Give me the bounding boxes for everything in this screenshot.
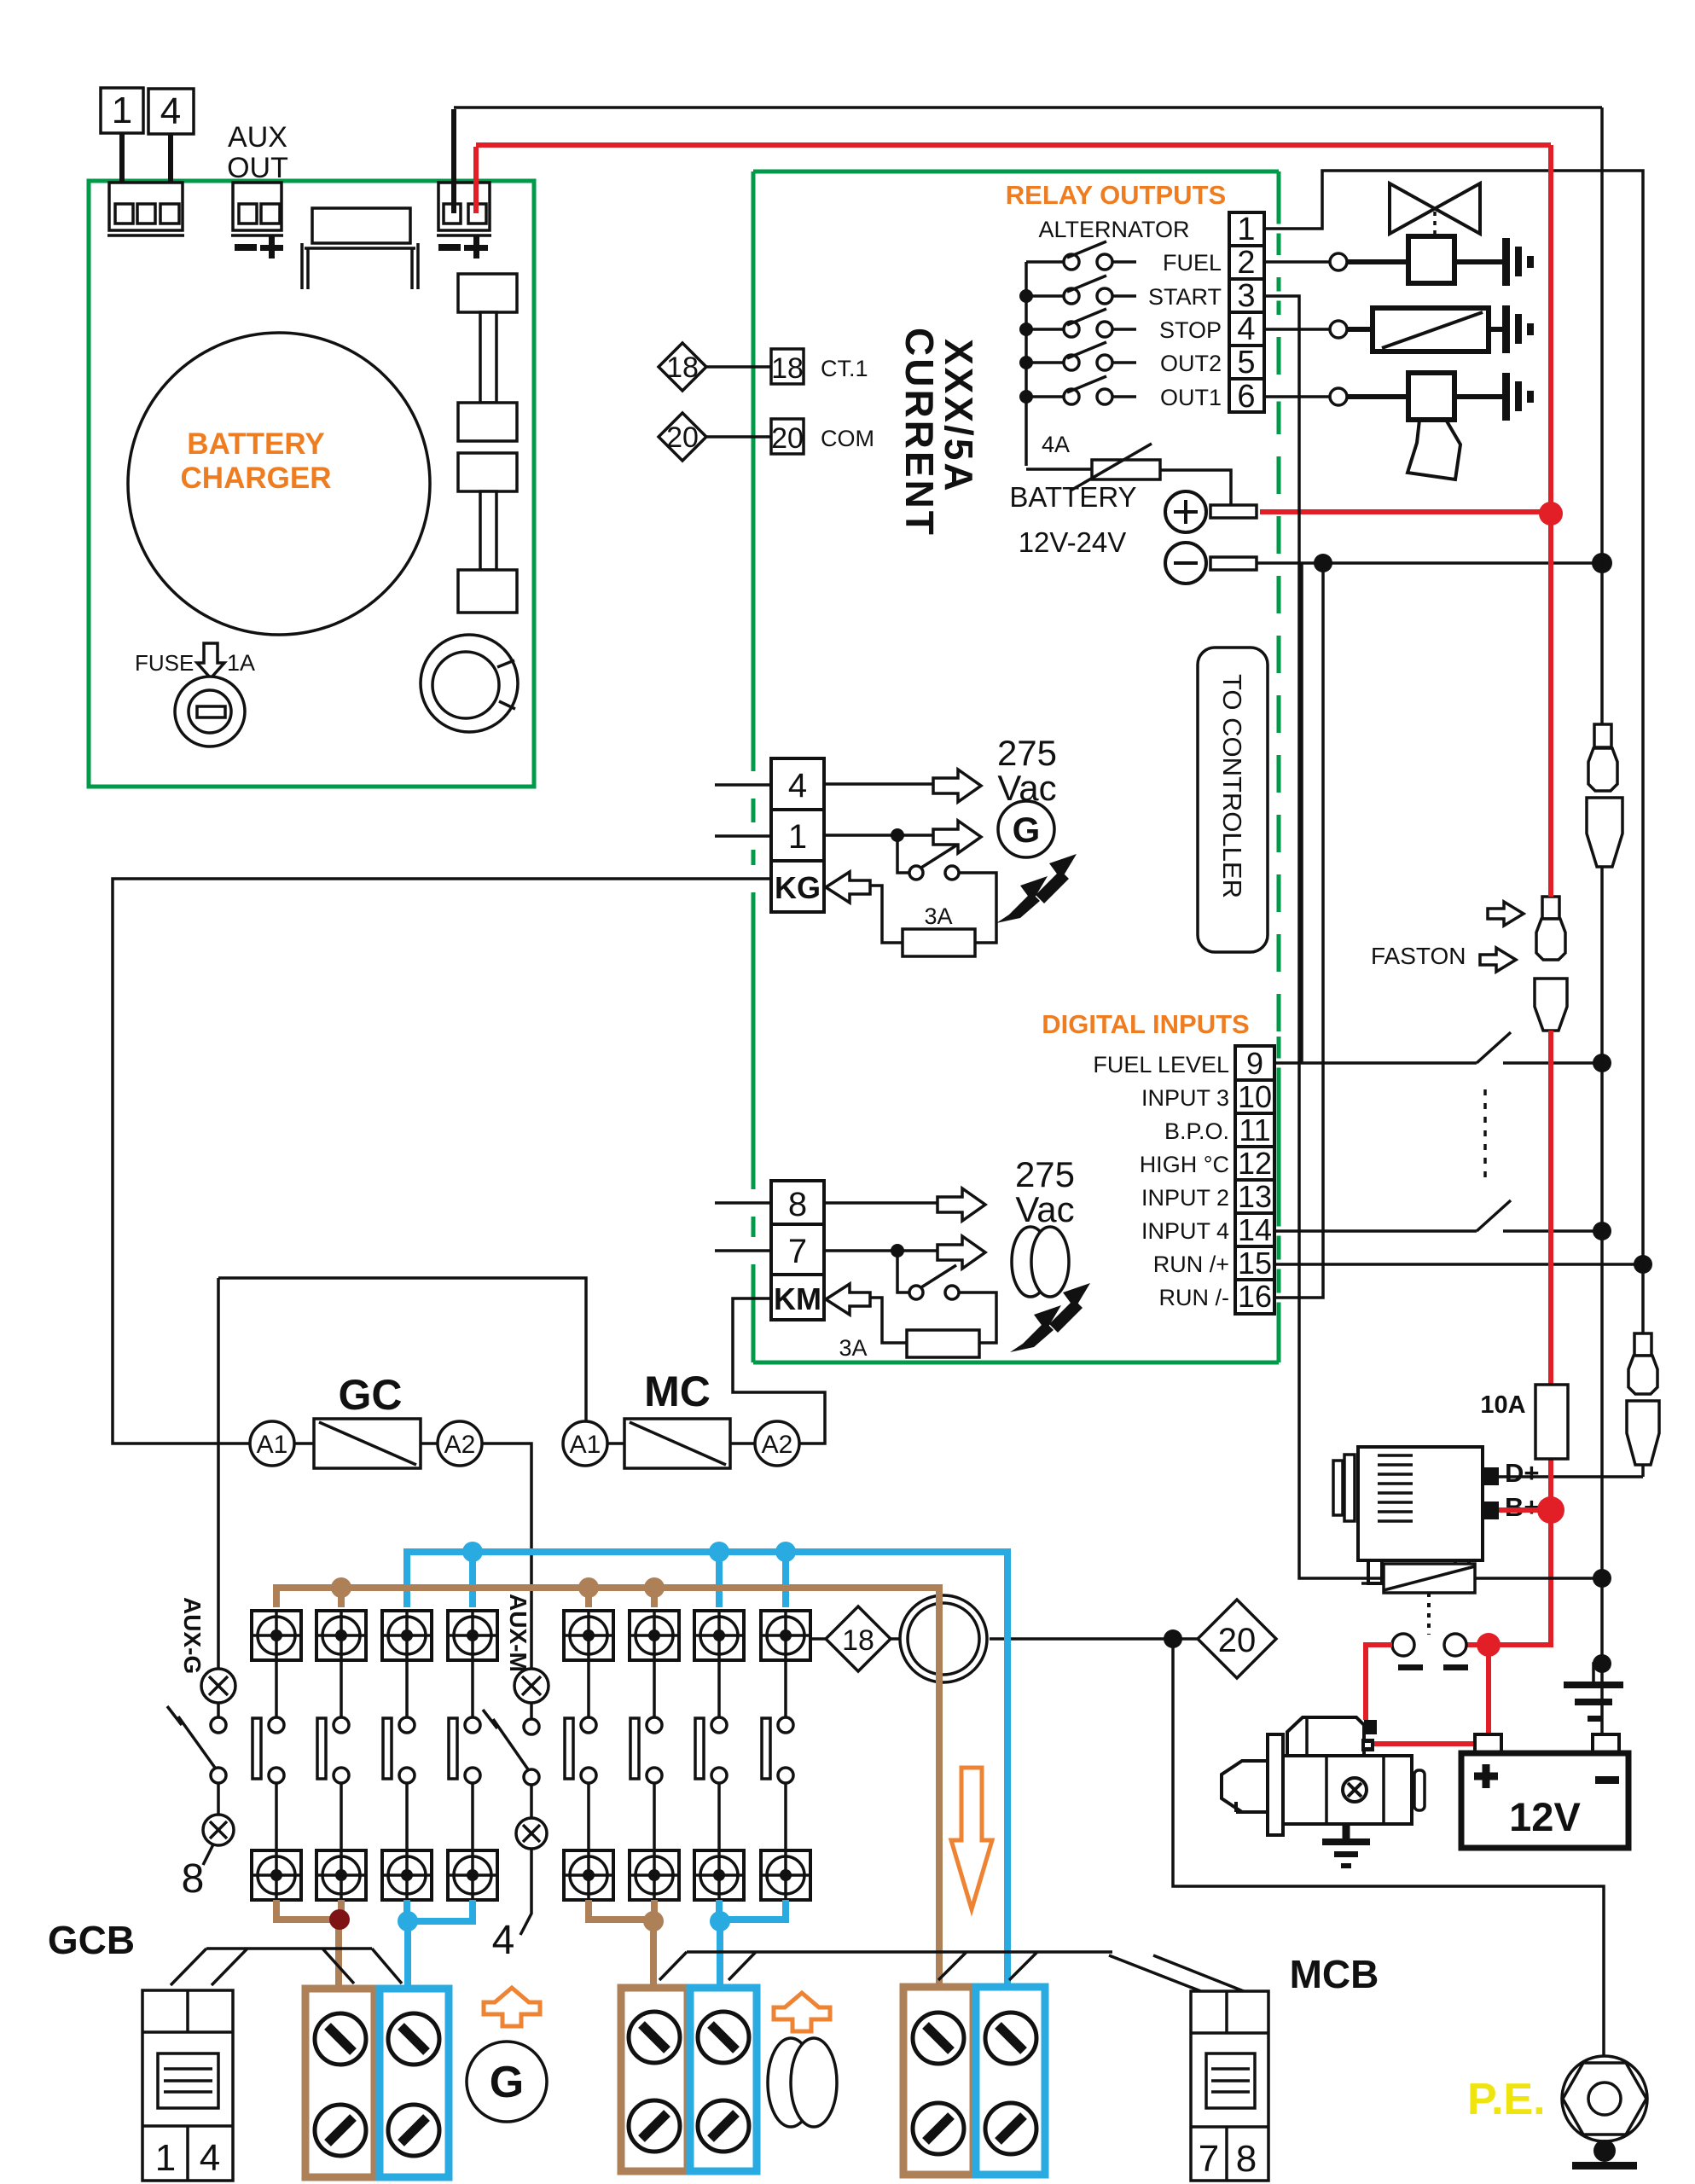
- svg-text:1A: 1A: [227, 650, 255, 676]
- generator output block brown: [305, 1989, 374, 2177]
- wire: tag1 to AUX OUT terminal: [119, 133, 125, 215]
- orange arrow up (mains): [774, 1993, 830, 2031]
- battery minus input circle: [1165, 543, 1206, 584]
- svg-text:A1: A1: [570, 1431, 601, 1459]
- wire: coil to A2: [730, 1442, 755, 1445]
- wire: relay to negative rail: [1475, 1577, 1602, 1580]
- svg-text:INPUT 4: INPUT 4: [1141, 1218, 1229, 1244]
- AUX-M switch: [524, 1719, 539, 1734]
- junction dot red: [1539, 502, 1563, 526]
- svg-text:KG: KG: [775, 870, 821, 905]
- screw terminal top x=554: [448, 1611, 497, 1660]
- tag diamond 20 (engine side): [990, 1637, 1198, 1641]
- wire: minus terminal lead: [451, 109, 456, 213]
- svg-text:FUEL LEVEL: FUEL LEVEL: [1093, 1052, 1229, 1077]
- svg-text:11: 11: [1239, 1112, 1270, 1147]
- stop solenoid: [1373, 308, 1489, 351]
- screw terminal top x=324: [252, 1611, 301, 1660]
- relay contact row: [1026, 361, 1064, 364]
- ground (stop solenoid): [1502, 305, 1510, 353]
- screw terminal bottom x=843: [694, 1850, 744, 1900]
- relay contact row: [1026, 260, 1064, 264]
- svg-text:12: 12: [1238, 1146, 1272, 1181]
- MCB feed line with fans: [659, 1952, 1252, 1995]
- svg-text:9: 9: [1246, 1046, 1263, 1081]
- wire: battery plus main red (charger + to system, top run): [476, 142, 1551, 148]
- blue link to generator block: [407, 1900, 473, 1989]
- svg-text:4: 4: [1237, 311, 1255, 347]
- wire: KG-4 to genset voltage arrow: [824, 782, 933, 786]
- fuel solenoid coil: [1408, 236, 1454, 283]
- junction dot: [891, 1244, 904, 1258]
- relay contact row: [1026, 294, 1064, 298]
- svg-text:AUX: AUX: [228, 121, 287, 154]
- alternator pulley: [1333, 1461, 1343, 1515]
- wire: rail to AUX-G lamp: [217, 1278, 220, 1669]
- wire: GC A2 to AUX-M lamp: [482, 1443, 531, 1669]
- svg-text:FUSE: FUSE: [135, 650, 194, 676]
- wire: input 4: [1274, 1227, 1297, 1236]
- screw terminal bottom x=921: [761, 1850, 810, 1900]
- svg-text:FUEL: FUEL: [1163, 250, 1222, 276]
- svg-text:DIGITAL INPUTS: DIGITAL INPUTS: [1042, 1009, 1249, 1039]
- glow contactor contacts: [1392, 1634, 1414, 1656]
- svg-text:B.P.O.: B.P.O.: [1164, 1118, 1229, 1144]
- GC A2: [438, 1421, 482, 1466]
- starter ground: [1343, 1824, 1350, 1842]
- svg-text:12V-24V: 12V-24V: [1019, 526, 1127, 558]
- svg-text:20: 20: [1218, 1622, 1257, 1659]
- power terminal column x=400: [340, 1660, 343, 1850]
- red wire: contact to starter solenoid: [1366, 1645, 1392, 1720]
- svg-text:RELAY OUTPUTS: RELAY OUTPUTS: [1006, 180, 1226, 210]
- polarity marks - +: [235, 244, 257, 251]
- faston pair on red lead: [1542, 897, 1559, 919]
- svg-text:6: 6: [1237, 379, 1255, 415]
- svg-text:A2: A2: [444, 1431, 476, 1459]
- starter body: [1281, 1756, 1412, 1824]
- svg-text:18: 18: [842, 1624, 874, 1657]
- alternator body: [1358, 1447, 1483, 1560]
- dashed actuator link: [1427, 1593, 1431, 1635]
- power terminal column x=767: [653, 1660, 656, 1850]
- faston pair on terminal1 lead: [1634, 1333, 1651, 1356]
- svg-text:BATTERY: BATTERY: [1009, 481, 1136, 513]
- wire: plus terminal lead (red): [473, 147, 479, 213]
- wire: RUN/+: [1274, 1260, 1297, 1269]
- screw terminal top x=767: [630, 1611, 679, 1660]
- breaker MCB: [1191, 1991, 1268, 2181]
- junction dot minus/run-: [1314, 554, 1332, 572]
- svg-text:INPUT 3: INPUT 3: [1141, 1085, 1229, 1111]
- glow plug relay: [1384, 1564, 1475, 1593]
- ground (fuel solenoid): [1502, 238, 1510, 286]
- svg-text:16: 16: [1238, 1279, 1272, 1314]
- CT current transformer: [826, 1606, 891, 1671]
- AUX-G lamp: [201, 1669, 235, 1703]
- svg-text:KM: KM: [774, 1281, 821, 1316]
- red main vertical (upper): [1548, 145, 1553, 897]
- svg-text:4: 4: [160, 90, 181, 132]
- terminal strip 1-6: [1229, 212, 1264, 246]
- MC coil: [624, 1419, 730, 1468]
- junction dot: [891, 828, 904, 842]
- screw terminal top x=921: [761, 1611, 810, 1660]
- screw terminal bottom x=324: [252, 1850, 301, 1900]
- svg-text:TO CONTROLLER: TO CONTROLLER: [1217, 674, 1247, 898]
- arrow right (275Vac gen): [933, 770, 981, 802]
- wire: stub into KM-8: [734, 1199, 771, 1208]
- screw terminal bottom x=690: [564, 1850, 613, 1900]
- svg-text:14: 14: [1238, 1212, 1272, 1247]
- power terminal column x=554: [471, 1660, 474, 1850]
- svg-text:15: 15: [1238, 1246, 1272, 1281]
- terminal tag 1: [101, 88, 143, 133]
- terminal strip 9-16: [1235, 1046, 1274, 1080]
- relay contact row: [1026, 395, 1064, 398]
- svg-text:A1: A1: [257, 1431, 288, 1459]
- MCB output block blue: [976, 1987, 1045, 2175]
- starter frame screw: [1343, 1778, 1367, 1802]
- terminal box 18 CT.1: [771, 349, 804, 384]
- starter motor solenoid: [1287, 1717, 1364, 1756]
- screw terminal top x=400: [316, 1611, 366, 1660]
- relay common bus: [1025, 262, 1028, 466]
- svg-text:AUX-G: AUX-G: [179, 1597, 206, 1674]
- svg-text:13: 13: [1238, 1179, 1272, 1214]
- blue phase rail: [407, 1552, 1007, 1987]
- screw terminal bottom x=477: [382, 1850, 432, 1900]
- wire: tag4 to AUX OUT terminal: [168, 134, 173, 215]
- svg-text:1: 1: [1237, 212, 1255, 247]
- potentiometer: [421, 635, 518, 732]
- svg-text:INPUT 2: INPUT 2: [1141, 1185, 1229, 1211]
- wire: minus to negative rail: [1257, 561, 1602, 565]
- red junction dot: [1477, 1633, 1501, 1657]
- regulator block 1: [458, 274, 517, 312]
- AUX-M lamp 2: [516, 1818, 547, 1849]
- KG aux switch: [897, 835, 909, 873]
- fuel level switch: [1477, 1032, 1511, 1063]
- svg-text:2: 2: [1237, 245, 1255, 281]
- wire: battery minus main (charger to engine battery, top run): [454, 106, 1602, 109]
- battery 12V: [1475, 1734, 1501, 1753]
- tag diamond 20: [659, 413, 706, 461]
- screw terminal bottom x=400: [316, 1850, 366, 1900]
- wire: D+ to loom: [1499, 1475, 1643, 1478]
- screw terminal top x=843: [694, 1611, 744, 1660]
- svg-text:A2: A2: [762, 1431, 793, 1459]
- generator G circle: [467, 2042, 547, 2122]
- wire: MC A2 to KM: [733, 1298, 825, 1443]
- svg-text:OUT: OUT: [227, 152, 288, 184]
- svg-text:GCB: GCB: [48, 1918, 135, 1962]
- svg-text:AUX-M: AUX-M: [505, 1594, 531, 1672]
- faston pair on negative lead: [1594, 724, 1611, 747]
- svg-text:MCB: MCB: [1290, 1952, 1379, 1996]
- brown phase rail: [276, 1588, 939, 1987]
- wire: KG to GC A1 (left loop): [734, 874, 771, 884]
- red main vertical (lower): [1460, 1031, 1551, 1645]
- wire: terminal 4 STOP to stop solenoid: [1274, 325, 1297, 334]
- junction dot negative rail top: [1600, 107, 1604, 724]
- power terminal column x=477: [405, 1660, 409, 1850]
- regulator block 4: [458, 570, 517, 613]
- svg-text:OUT2: OUT2: [1160, 351, 1222, 376]
- terminal block KG (4/1/KG): [771, 758, 824, 810]
- power terminal column x=843: [717, 1660, 721, 1850]
- red wire: to battery plus: [1486, 1645, 1491, 1734]
- starter terminal studs: [1364, 1720, 1377, 1734]
- MC A1: [563, 1421, 607, 1466]
- arrow right: [937, 1236, 985, 1269]
- wire: coil to A2: [421, 1442, 438, 1445]
- screw terminal bottom x=767: [630, 1850, 679, 1900]
- terminal tag 4: [148, 89, 194, 134]
- GC A1: [250, 1421, 294, 1466]
- wire: diamond20 to COM: [706, 435, 771, 439]
- dashed link between input switches: [1483, 1089, 1487, 1182]
- screw terminal bottom x=554: [448, 1850, 497, 1900]
- svg-text:RUN /+: RUN /+: [1153, 1252, 1229, 1277]
- orange arrow up (gen): [484, 1988, 540, 2026]
- svg-text:1: 1: [155, 2137, 176, 2179]
- battery charger enclosure (green): [89, 181, 534, 787]
- wire: RUN/- to minus: [1274, 1293, 1297, 1303]
- AUX-M lamp: [514, 1669, 549, 1703]
- svg-text:HIGH °C: HIGH °C: [1140, 1152, 1229, 1177]
- wire: KM-8 to mains arrow: [824, 1201, 937, 1205]
- svg-text:D+: D+: [1505, 1458, 1540, 1488]
- svg-text:MC: MC: [644, 1368, 711, 1415]
- GC coil: [314, 1419, 421, 1468]
- power terminal column x=324: [275, 1660, 278, 1850]
- svg-text:10: 10: [1238, 1079, 1272, 1114]
- input 4 switch: [1477, 1200, 1511, 1231]
- MC A2: [755, 1421, 799, 1466]
- mains input block blue: [690, 1988, 757, 2171]
- alternator feet: [1368, 1560, 1469, 1583]
- controller enclosure (green, dashed right edge): [753, 170, 1279, 174]
- svg-text:B+: B+: [1505, 1492, 1540, 1522]
- wire: fuse to battery plus: [1160, 470, 1231, 505]
- wire: KG-1 to arrow: [824, 834, 933, 837]
- screw terminal top x=477: [382, 1611, 432, 1660]
- wire: stub into KG-4: [734, 781, 771, 790]
- svg-text:CHARGER: CHARGER: [181, 462, 332, 495]
- svg-text:3A: 3A: [924, 903, 952, 929]
- orange arrow down (mains feed): [951, 1768, 992, 1909]
- wire: B+ red: [1499, 1507, 1551, 1513]
- polarity marks - +: [438, 244, 461, 251]
- svg-text:18: 18: [771, 352, 804, 385]
- wire: KM-7 to arrow: [824, 1249, 937, 1252]
- charger transformer circle: [128, 333, 430, 635]
- svg-text:RUN /-: RUN /-: [1159, 1285, 1230, 1310]
- svg-text:4: 4: [200, 2137, 220, 2179]
- svg-text:COM: COM: [821, 426, 874, 451]
- terminal block KM (8/7/KM): [771, 1181, 824, 1224]
- wire: terminal 2 FUEL to fuel solenoid: [1274, 258, 1297, 267]
- screw terminal top x=690: [564, 1611, 613, 1660]
- KM aux switch: [897, 1251, 909, 1292]
- breaker GCB: [142, 1990, 233, 2181]
- double arrow variable symbol: [996, 854, 1077, 923]
- resistor bar: [480, 312, 496, 403]
- starter mount bracket: [1268, 1734, 1283, 1835]
- svg-text:GC: GC: [339, 1371, 403, 1419]
- svg-text:START: START: [1148, 284, 1222, 310]
- wire: CT common to PE: [1173, 1639, 1604, 2057]
- horn: [1408, 420, 1460, 479]
- resistor bar: [480, 491, 496, 570]
- power terminal column x=921: [784, 1660, 787, 1850]
- svg-text:8: 8: [788, 1186, 807, 1223]
- svg-text:CT.1: CT.1: [821, 356, 868, 381]
- transformer bracket: [312, 208, 410, 243]
- starter rear tab: [1414, 1770, 1425, 1810]
- wire: diamond18 to CT.1: [706, 365, 771, 369]
- arrow right: [933, 821, 981, 853]
- svg-text:STOP: STOP: [1159, 317, 1222, 343]
- battery plus input circle: [1165, 491, 1206, 532]
- wire: fuel level sender circuit: [1274, 1059, 1297, 1068]
- svg-text:1: 1: [788, 818, 807, 856]
- power terminal column x=690: [587, 1660, 590, 1850]
- wire: terminal 6 OUT1 to horn: [1274, 392, 1297, 402]
- terminal block 3-gang (aux out): [109, 183, 183, 230]
- generator G circle: [998, 801, 1054, 857]
- B+ terminal: [1483, 1501, 1499, 1519]
- regulator block 2: [458, 403, 517, 441]
- svg-text:ALTERNATOR: ALTERNATOR: [1038, 217, 1189, 242]
- fuse holder circle: [175, 677, 245, 746]
- mains transformer coil: [1012, 1227, 1049, 1297]
- wire: stub into KG-1: [734, 832, 771, 841]
- AUX-G lamp 2: [203, 1815, 234, 1845]
- svg-text:FASTON: FASTON: [1371, 943, 1466, 969]
- svg-text:CURRENT: CURRENT: [897, 328, 942, 537]
- blue link to mains block: [719, 1900, 786, 1987]
- wire: rail to MC A1: [218, 1278, 586, 1421]
- engine ground on negative rail: [1593, 1654, 1611, 1673]
- arrow right (275Vac mains): [937, 1188, 985, 1221]
- svg-text:12V: 12V: [1509, 1794, 1581, 1839]
- arrow left into KM: [826, 1284, 870, 1315]
- svg-text:G: G: [1013, 810, 1041, 850]
- generator output block blue: [380, 1989, 449, 2177]
- svg-text:5: 5: [1237, 345, 1255, 380]
- terminal box 20 COM: [771, 419, 804, 454]
- label TO CONTROLLER rounded box: [1198, 648, 1268, 952]
- AUX-G switch: [211, 1717, 226, 1733]
- svg-text:8: 8: [182, 1856, 205, 1902]
- wire: stub into KM-7: [734, 1246, 771, 1256]
- wire: A1 lead: [294, 1442, 314, 1445]
- svg-text:275: 275: [997, 733, 1057, 773]
- svg-text:Vac: Vac: [1015, 1189, 1074, 1229]
- brown link to mains block: [589, 1900, 654, 1988]
- svg-text:4: 4: [788, 767, 807, 804]
- D+ terminal: [1483, 1467, 1499, 1485]
- starter pinion nose: [1222, 1761, 1268, 1812]
- junction dot on negative rail: [1592, 553, 1612, 573]
- relay contact row: [1026, 328, 1064, 331]
- brown link to generator block: [276, 1900, 341, 1989]
- terminal block 2-gang charger aux: [233, 183, 282, 230]
- ground (horn): [1502, 373, 1510, 421]
- wire: plus red to main red: [1260, 509, 1551, 514]
- svg-text:4: 4: [492, 1918, 515, 1963]
- svg-text:BATTERY: BATTERY: [187, 427, 324, 461]
- svg-text:3A: 3A: [839, 1335, 867, 1361]
- arrow down at fuse: [197, 643, 224, 678]
- svg-text:8: 8: [1236, 2138, 1257, 2180]
- svg-text:P.E.: P.E.: [1467, 2075, 1546, 2124]
- fuel shutoff valve (bowtie): [1390, 183, 1480, 234]
- junction dots on bus: [1019, 289, 1033, 303]
- svg-text:20: 20: [771, 422, 804, 455]
- tag diamond 18: [659, 343, 706, 391]
- svg-text:275: 275: [1015, 1154, 1075, 1194]
- svg-text:4A: 4A: [1042, 432, 1070, 457]
- MCB output block brown: [903, 1987, 973, 2175]
- svg-text:10A: 10A: [1480, 1391, 1525, 1419]
- svg-text:20: 20: [666, 421, 699, 454]
- mains input block brown: [621, 1988, 688, 2171]
- arrow left into KG: [826, 872, 870, 903]
- svg-text:OUT1: OUT1: [1160, 385, 1222, 410]
- svg-text:3: 3: [1237, 278, 1255, 314]
- double arrow variable symbol: [1010, 1283, 1090, 1352]
- svg-text:7: 7: [788, 1233, 807, 1270]
- svg-text:XXX/5A: XXX/5A: [937, 339, 981, 494]
- wire: terminal 3 START: [1274, 292, 1297, 301]
- svg-text:G: G: [490, 2058, 524, 2107]
- svg-text:1: 1: [112, 90, 132, 131]
- mains transformer coil: [768, 2038, 814, 2127]
- horn relay coil: [1408, 373, 1454, 420]
- svg-text:18: 18: [666, 351, 699, 384]
- wire: terminal 1 to engine loom: [1274, 224, 1297, 234]
- wire: A1 lead: [607, 1442, 624, 1445]
- svg-text:7: 7: [1199, 2138, 1219, 2180]
- GCB cable fan: [171, 1949, 402, 1985]
- PE stud (nut): [1562, 2056, 1647, 2141]
- terminal block 2-gang charger battery output: [438, 183, 490, 230]
- regulator block 3: [458, 453, 517, 491]
